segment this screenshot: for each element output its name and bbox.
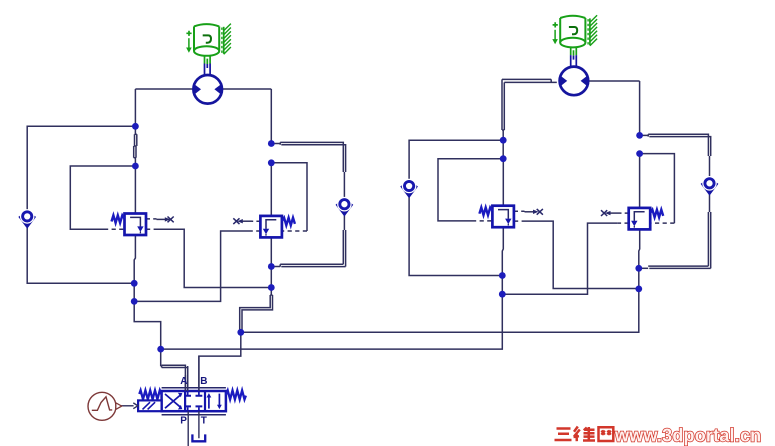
svg-text:A: A	[180, 376, 187, 387]
svg-text:www.3dportal.cn: www.3dportal.cn	[614, 426, 761, 446]
svg-text:P: P	[180, 416, 187, 427]
svg-text:T: T	[201, 416, 207, 427]
svg-text:B: B	[200, 376, 207, 387]
